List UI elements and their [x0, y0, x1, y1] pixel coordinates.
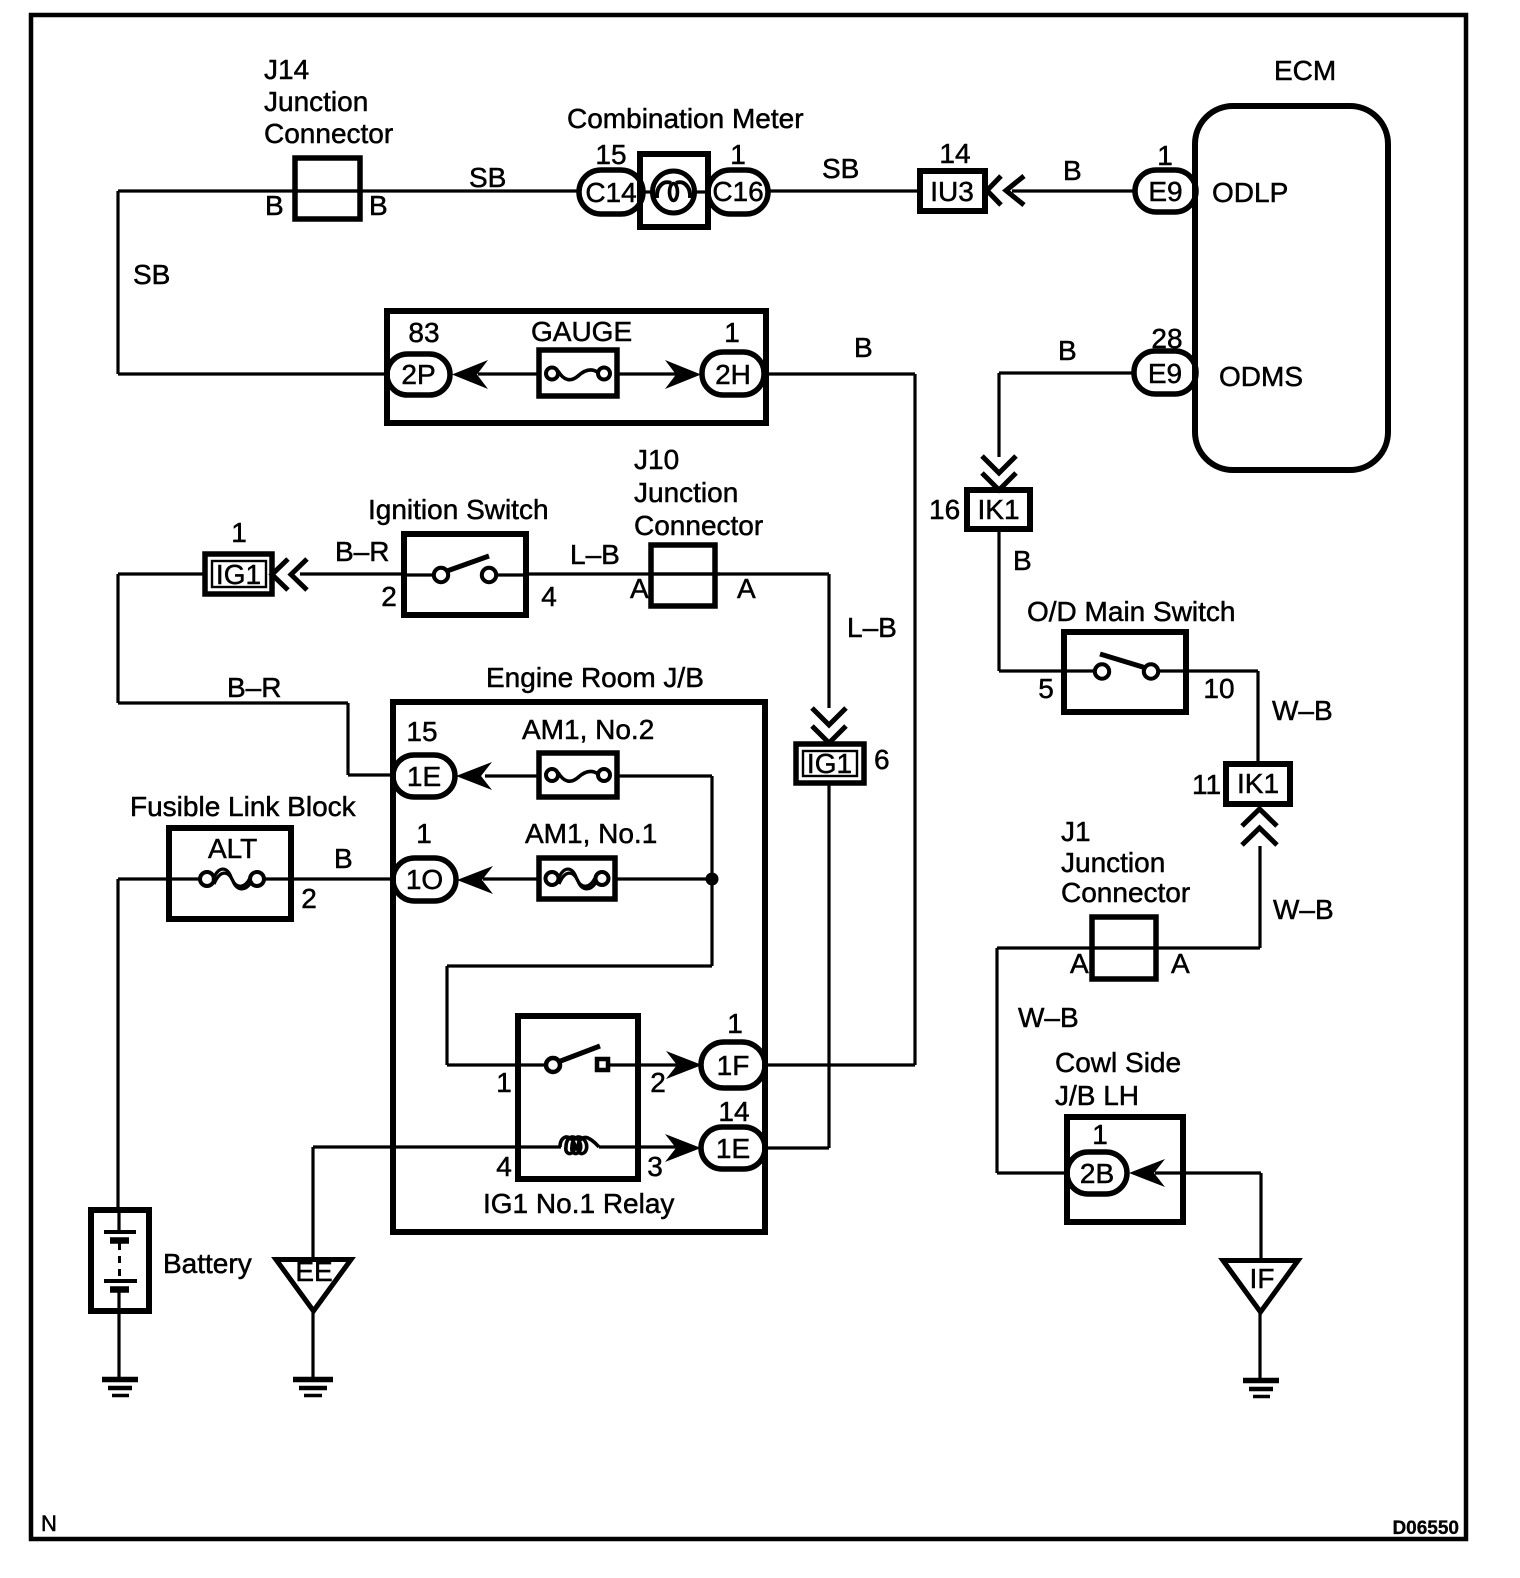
connector 1O	[393, 858, 456, 901]
svg-text:SB: SB	[133, 259, 170, 290]
wire IG1 1 to left	[118, 572, 205, 575]
svg-text:IK1: IK1	[977, 494, 1019, 525]
svg-text:L–B: L–B	[570, 539, 620, 570]
svg-text:1F: 1F	[717, 1050, 750, 1081]
connector 2B	[1067, 1152, 1127, 1194]
chevrons down into IK1	[982, 456, 1016, 490]
svg-text:1E: 1E	[407, 761, 441, 792]
bulb lamp symbol	[653, 171, 695, 213]
wire 2H to right	[764, 372, 915, 375]
svg-text:N: N	[41, 1511, 57, 1536]
svg-text:A: A	[1070, 948, 1089, 979]
svg-text:A: A	[1171, 948, 1190, 979]
wire arrow to fuse AM1 No.2	[485, 774, 539, 777]
wire J14 to C14	[295, 189, 581, 192]
ground point IF	[1223, 1261, 1298, 1313]
svg-text:B: B	[1063, 155, 1082, 186]
arrow into 2H	[665, 360, 701, 389]
wire SB into 2P	[118, 372, 390, 375]
svg-text:ALT: ALT	[208, 833, 257, 864]
wire IK1 down	[997, 529, 1000, 671]
svg-text:C16: C16	[712, 176, 763, 207]
wire chevrons to ignition switch	[300, 572, 405, 575]
wire J1 left side	[997, 946, 1158, 949]
relay coil	[560, 1137, 599, 1154]
svg-text:Engine Room J/B: Engine Room J/B	[486, 662, 704, 693]
connector C14	[579, 170, 643, 214]
wire relay to EE triangle	[311, 1147, 314, 1258]
junction dot	[706, 873, 719, 886]
svg-text:16: 16	[929, 494, 960, 525]
svg-text:W–B: W–B	[1273, 894, 1334, 925]
svg-text:A: A	[737, 573, 756, 604]
junction block connector IU3	[920, 171, 985, 211]
arrow into 1E 14	[665, 1134, 701, 1162]
fusible link ALT symbol	[200, 872, 214, 886]
relay IG1 No.1 box	[518, 1016, 638, 1179]
svg-text:14: 14	[939, 138, 970, 169]
arrow into 1O	[457, 866, 493, 894]
ground point EE	[276, 1260, 351, 1312]
wire chevrons down to J1 row	[1258, 846, 1261, 948]
svg-text:3: 3	[647, 1151, 663, 1182]
female chevrons at IG1	[272, 559, 307, 590]
wire down to battery	[116, 879, 119, 1210]
svg-text:Cowl Side: Cowl Side	[1055, 1047, 1181, 1078]
connector 1F	[701, 1042, 765, 1088]
fuse GAUGE	[539, 350, 617, 396]
wire fuse to arrow	[617, 372, 676, 375]
wire EE to ground	[311, 1311, 314, 1377]
junction connector J1	[1092, 917, 1156, 979]
svg-text:B–R: B–R	[335, 536, 389, 567]
svg-text:W–B: W–B	[1272, 695, 1333, 726]
svg-text:A: A	[630, 573, 649, 604]
svg-text:2P: 2P	[401, 359, 435, 390]
wire J10 to corner	[650, 572, 829, 575]
svg-text:5: 5	[1038, 673, 1054, 704]
fusible link block ALT box	[169, 828, 291, 919]
junction block connector IK1 pin 11	[1226, 764, 1290, 804]
junction connector J10	[651, 545, 715, 606]
wire relay pin 4 to left	[313, 1145, 561, 1148]
wire coil to arrow	[599, 1145, 676, 1148]
svg-text:B–R: B–R	[227, 672, 281, 703]
svg-text:B: B	[369, 190, 388, 221]
wire battery to ground	[117, 1311, 120, 1377]
wire fusible link to junction dot	[615, 877, 712, 880]
wire B-R horizontal	[118, 701, 348, 704]
svg-text:1O: 1O	[406, 864, 443, 895]
svg-text:AM1, No.1: AM1, No.1	[525, 818, 657, 849]
svg-text:Junction: Junction	[634, 477, 738, 508]
wire ALT to 1O	[264, 877, 393, 880]
svg-text:E9: E9	[1148, 358, 1182, 389]
svg-text:B: B	[1058, 335, 1077, 366]
svg-text:IK1: IK1	[1237, 768, 1279, 799]
wire 1F to B wire	[765, 1063, 915, 1066]
ground battery	[102, 1377, 138, 1383]
svg-text:15: 15	[595, 139, 626, 170]
svg-text:W–B: W–B	[1018, 1002, 1079, 1033]
svg-text:IF: IF	[1250, 1263, 1275, 1294]
svg-text:SB: SB	[469, 162, 506, 193]
connector 1E pin 15	[393, 755, 455, 797]
O/D switch contacts	[1095, 664, 1109, 678]
svg-text:Connector: Connector	[1061, 877, 1190, 908]
combination meter box	[640, 154, 708, 227]
connector 2H	[702, 352, 764, 395]
svg-text:1: 1	[496, 1067, 512, 1098]
wire IU3 to E9	[1012, 189, 1135, 192]
GAUGE fuse outer box	[387, 311, 766, 423]
wire B-R into 1E	[348, 773, 393, 776]
svg-text:2B: 2B	[1080, 1158, 1114, 1189]
svg-text:J/B LH: J/B LH	[1055, 1080, 1139, 1111]
svg-text:2: 2	[381, 581, 397, 612]
ignition switch box	[404, 534, 526, 615]
wire into O/D switch	[999, 669, 1095, 672]
wire B vertical long	[913, 374, 916, 1065]
svg-text:Connector: Connector	[264, 118, 393, 149]
O/D main switch box	[1064, 632, 1186, 712]
arrow into 1F	[666, 1051, 702, 1079]
wire W-B down to IK1 11	[1256, 671, 1259, 764]
svg-text:B: B	[265, 190, 284, 221]
wire C16 to IU3	[768, 189, 920, 192]
svg-text:Junction: Junction	[264, 86, 368, 117]
svg-text:IU3: IU3	[930, 176, 974, 207]
wire W-B down left side	[995, 948, 998, 1173]
wire contact to arrow	[608, 1063, 677, 1066]
svg-text:1: 1	[416, 818, 432, 849]
svg-text:83: 83	[408, 317, 439, 348]
switch blade	[1100, 654, 1146, 668]
wire arrow to fusible link AM1 No.1	[483, 877, 539, 880]
svg-text:1: 1	[730, 139, 746, 170]
wire down to IF	[1259, 1173, 1262, 1259]
svg-text:J14: J14	[264, 54, 309, 85]
svg-text:1: 1	[1157, 140, 1173, 171]
connector 1E pin 14	[701, 1127, 765, 1169]
svg-text:Fusible Link Block: Fusible Link Block	[130, 791, 357, 822]
battery	[91, 1210, 149, 1311]
wire L-B vertical down	[827, 574, 830, 708]
wire IG1 6 down to relay 1E14	[827, 783, 830, 1148]
svg-text:1: 1	[727, 1008, 743, 1039]
wire IF to ground	[1258, 1312, 1261, 1378]
female chevrons at IU3	[987, 176, 1024, 205]
svg-text:1: 1	[231, 517, 247, 548]
svg-text:4: 4	[496, 1151, 512, 1182]
svg-text:1E: 1E	[716, 1133, 750, 1164]
relay contact circles	[546, 1058, 560, 1072]
junction block connector IG1 pin 6	[796, 744, 864, 783]
svg-text:2H: 2H	[715, 359, 751, 390]
wire into 2B	[997, 1171, 1067, 1174]
ECM box	[1195, 106, 1388, 470]
svg-text:C14: C14	[585, 177, 636, 208]
ground EE	[293, 1377, 333, 1383]
chevrons down into IG1 connector 6	[812, 708, 846, 743]
wire down-left to relay contact	[447, 964, 712, 967]
svg-text:IG1: IG1	[807, 748, 852, 779]
svg-text:11: 11	[1192, 769, 1221, 800]
junction connector J14	[295, 158, 360, 219]
arrow into 1E	[456, 762, 492, 790]
connector E9 pin 1	[1135, 170, 1196, 212]
svg-text:SB: SB	[822, 153, 859, 184]
wire B-R jog down	[346, 703, 349, 775]
ignition switch contacts	[404, 573, 433, 576]
svg-text:GAUGE: GAUGE	[531, 316, 632, 347]
svg-text:B: B	[1013, 545, 1032, 576]
svg-text:Combination Meter: Combination Meter	[567, 103, 804, 134]
svg-text:B: B	[854, 332, 873, 363]
wire ALT left	[118, 877, 200, 880]
svg-text:IG1: IG1	[216, 559, 261, 590]
wire fuse to corner	[617, 774, 712, 777]
junction block connector IK1 pin 16	[967, 490, 1030, 529]
wire 2B to IF wire	[1155, 1171, 1261, 1174]
wire vertical to AM1 No.1 output	[710, 776, 713, 966]
arrow into 2P	[452, 360, 488, 389]
svg-text:B: B	[334, 843, 353, 874]
switch blade	[447, 556, 489, 571]
wire to J1 right side	[1090, 946, 1260, 949]
Cowl Side J/B box	[1067, 1117, 1183, 1222]
wire E9 28 to left	[999, 371, 1134, 374]
svg-text:D06550: D06550	[1392, 1518, 1459, 1539]
svg-text:Ignition Switch: Ignition Switch	[368, 494, 549, 525]
wire SB vertical down to gauge row	[116, 191, 119, 374]
svg-text:ODLP: ODLP	[1212, 177, 1288, 208]
svg-text:ODMS: ODMS	[1219, 361, 1303, 392]
svg-text:EE: EE	[295, 1256, 332, 1287]
svg-text:J1: J1	[1061, 816, 1091, 847]
svg-text:2: 2	[301, 883, 317, 914]
connector C16	[708, 170, 768, 214]
chevrons up below IK1 11	[1242, 809, 1277, 845]
svg-text:15: 15	[406, 716, 437, 747]
svg-text:10: 10	[1203, 673, 1234, 704]
connector 2P	[387, 354, 450, 395]
wire SB left of J14	[118, 189, 360, 192]
svg-text:1: 1	[1092, 1119, 1108, 1150]
wire 1E 14 to L-B vertical	[765, 1146, 829, 1149]
wire stubs inside meter box	[640, 190, 653, 193]
ground IF	[1243, 1378, 1279, 1384]
svg-text:2: 2	[650, 1067, 666, 1098]
connector E9 pin 28	[1134, 351, 1196, 394]
svg-text:L–B: L–B	[847, 612, 897, 643]
svg-text:Junction: Junction	[1061, 847, 1165, 878]
svg-text:14: 14	[718, 1096, 749, 1127]
svg-text:6: 6	[874, 744, 890, 775]
svg-text:J10: J10	[634, 444, 679, 475]
svg-text:Battery: Battery	[163, 1248, 252, 1279]
fuse AM1 No.2	[539, 753, 617, 797]
svg-text:O/D Main Switch: O/D Main Switch	[1027, 596, 1236, 627]
arrow into 2B	[1129, 1159, 1165, 1187]
svg-text:1: 1	[724, 317, 740, 348]
svg-text:AM1, No.2: AM1, No.2	[522, 714, 654, 745]
fusible link AM1 No.1	[539, 858, 615, 899]
svg-text:Connector: Connector	[634, 510, 763, 541]
wire arrow to fuse	[478, 372, 539, 375]
junction block connector IG1	[205, 554, 272, 594]
svg-text:E9: E9	[1148, 176, 1182, 207]
svg-text:ECM: ECM	[1274, 55, 1336, 86]
wire B down to IK1	[997, 373, 1000, 457]
wire O/D switch out	[1158, 669, 1258, 672]
wire switch to J10	[526, 572, 720, 575]
relay blade	[558, 1046, 600, 1062]
svg-text:4: 4	[541, 581, 557, 612]
svg-text:IG1 No.1 Relay: IG1 No.1 Relay	[483, 1188, 674, 1219]
wire B-R vertical	[116, 574, 119, 703]
Engine Room J/B box	[393, 702, 765, 1232]
